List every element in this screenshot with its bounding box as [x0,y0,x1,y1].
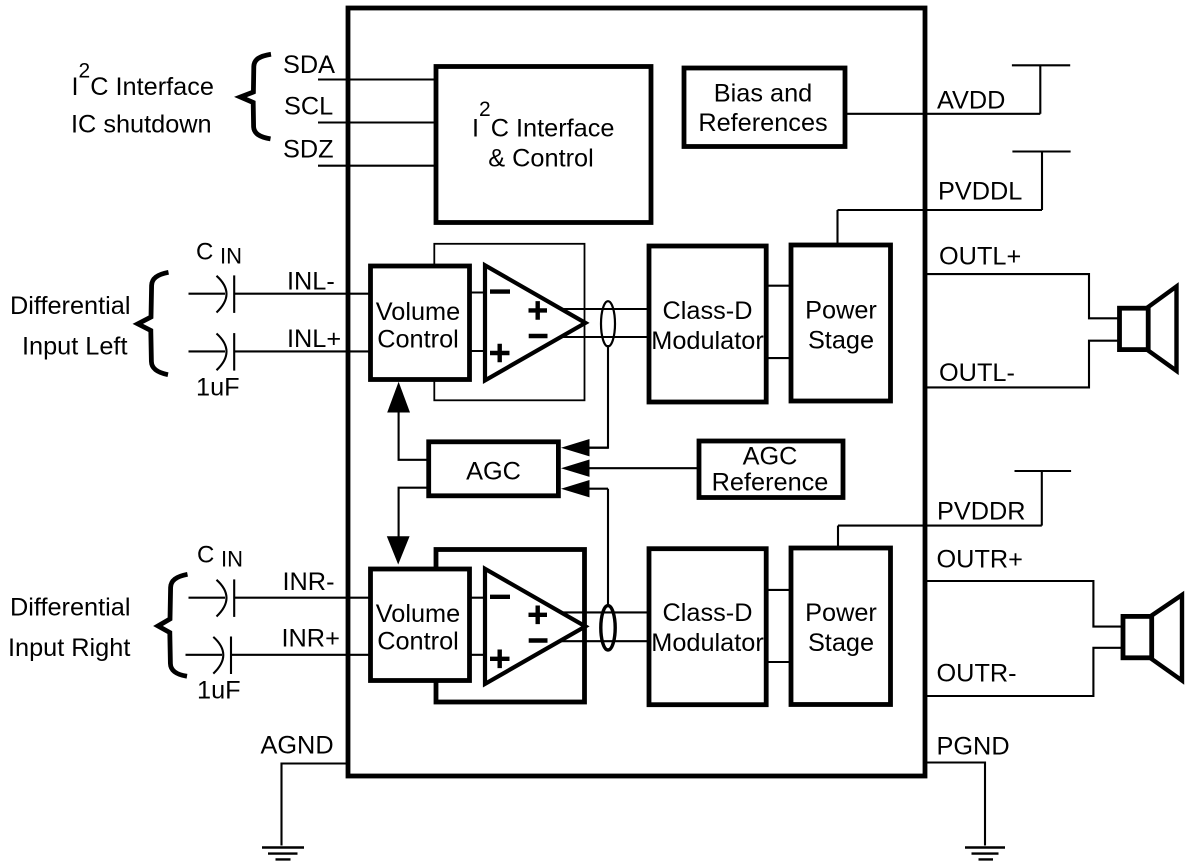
svg-text:Power: Power [805,599,877,627]
arrowhead down into Volume Control R [387,536,410,564]
feedback box around op-amp R (thick) [436,550,585,703]
svg-text:AGC: AGC [743,442,798,470]
differential pair ellipse L [601,301,615,346]
svg-text:PVDDL: PVDDL [938,178,1022,206]
ground symbol PGND [965,848,1005,860]
svg-text:Stage: Stage [808,326,874,354]
svg-text:PGND: PGND [937,732,1010,760]
op-amp U3 (right channel) [485,569,585,684]
capacitor CIN INR+ : curved plate [213,637,223,674]
brace I2C interface group [240,54,271,139]
block Bias and References [684,68,845,147]
capacitor CIN INR- : flat plate [233,579,235,617]
wire PVDDL drop to Power Stage L [836,210,838,245]
op-amp U2 minus (inverting input) [490,289,510,293]
svg-text:Input Right: Input Right [8,634,130,662]
svg-text:SDA: SDA [283,51,335,79]
op-amp U3 minus (inverting input) [490,595,510,599]
capacitor CIN INL+ : curved plate [217,334,227,371]
brace differential input left [138,272,169,374]
wire AVDD vertical riser [1039,65,1041,114]
wire OUTR+ [925,581,1123,627]
svg-text:Reference: Reference [712,468,829,496]
capacitor CIN INR+ : flat plate [230,637,232,675]
block AGC [429,442,559,496]
wire AGC sense tap left (ellipse to AGC arrow) [589,345,608,448]
op-amp U2 plus (non-inverting input) [490,344,510,363]
svg-text:& Control: & Control [488,144,593,172]
capacitor CIN INL- : left lead [189,293,226,295]
IC boundary outer rectangle [348,8,925,776]
wire PVDDR horizontal [838,525,1042,527]
svg-text:Power: Power [805,297,877,325]
svg-text:SDZ: SDZ [283,136,334,164]
wire Class-D L to Power Stage L lower [766,357,791,359]
power rail bar PVDDR [1015,470,1072,472]
svg-text:Class-D: Class-D [663,297,753,325]
svg-text:Differential: Differential [10,594,130,622]
svg-text:C: C [196,239,213,266]
svg-text:IN: IN [221,546,243,571]
svg-text:IC shutdown: IC shutdown [71,111,212,139]
wire OUTL+ [925,274,1120,318]
wire Volume Control R to op-amp inverting input [469,597,500,599]
ground symbol AGND [262,848,304,860]
block Class-D Modulator L [649,246,766,402]
block Power Stage L [791,245,891,401]
svg-text:OUTL+: OUTL+ [939,243,1021,271]
op-amp U3 plus (non-inverting input) [490,650,510,669]
svg-text:C: C [197,541,214,568]
capacitor CIN INL- : flat plate [233,275,235,313]
op-amp U2 (left channel) [485,265,585,380]
svg-text:INR-: INR- [283,568,335,596]
svg-text:INL-: INL- [287,267,335,295]
wire PVDDL horizontal [838,209,1043,211]
block U1 I2C Interface & Control [436,67,651,223]
wire SDZ [318,165,436,167]
wire Class-D L to Power Stage L upper [766,285,791,287]
block Power Stage R [791,548,891,705]
capacitor CIN INR- : curved plate [217,580,227,617]
wire op-amp R output + [545,611,649,613]
wire Volume Control L to op-amp inverting input [469,291,500,293]
speaker LS1 horn [1148,286,1176,370]
capacitor CIN INL+ : flat plate [233,333,235,371]
wire ellipse L tap into AGC arrow 1 [589,447,608,449]
wire PGND [925,763,985,846]
wire Class-D R to Power Stage R upper [766,589,791,591]
op-amp U3 minus (output polarity lower) [529,638,548,642]
capacitor CIN INL- : curved plate [217,276,227,313]
wire INL- to Volume Control [234,293,372,295]
svg-text:Control: Control [377,628,459,656]
block Volume Control L [371,266,470,380]
svg-text:OUTR+: OUTR+ [937,546,1023,574]
arrowhead into AGC (from left channel) [561,439,590,456]
op-amp U2 plus (output polarity upper) [529,301,548,320]
svg-text:Input Left: Input Left [22,332,128,360]
svg-text:SCL: SCL [284,93,333,121]
brace differential input right [158,574,188,676]
wire op-amp L output - [545,336,649,338]
wire OUTL- [925,341,1120,388]
svg-text:Control: Control [377,326,459,354]
svg-text:OUTL-: OUTL- [939,359,1015,387]
wire ellipse R tap into AGC arrow 3 [589,489,608,607]
svg-text:OUTR-: OUTR- [937,659,1017,687]
svg-text:Volume: Volume [376,298,460,326]
arrowhead into AGC (from AGC Reference) [561,460,590,477]
wire op-amp R output - [545,640,649,642]
svg-text:Differential: Differential [10,292,130,320]
svg-text:References: References [698,109,827,137]
wire AGND [282,764,349,846]
differential pair ellipse R [601,606,615,650]
svg-text:IN: IN [220,244,242,269]
wire AVDD from Bias block through boundary [845,113,1040,115]
power rail bar PVDDL [1012,150,1070,152]
svg-text:INL+: INL+ [287,325,341,353]
capacitor CIN INR+ : left lead [186,654,223,656]
speaker LS2 box [1123,616,1152,657]
svg-text:AGND: AGND [261,732,334,760]
block Class-D Modulator R [649,549,766,705]
wire SCL [318,121,436,123]
wire AGC to Volume Control L (vertical with up arrow) [399,411,428,460]
svg-text:Stage: Stage [808,629,874,657]
feedback box around op-amp L (thin) [434,244,584,400]
svg-text:Bias and: Bias and [714,79,812,107]
svg-text:INR+: INR+ [282,625,340,653]
svg-text:AVDD: AVDD [937,86,1005,114]
wire INL+ to Volume Control [234,350,372,352]
capacitor CIN INR- : left lead [189,597,226,599]
svg-text:Volume: Volume [376,600,460,628]
svg-text:1uF: 1uF [196,374,240,402]
wire SDA [318,78,436,80]
capacitor CIN INL+ : left lead [189,350,226,352]
svg-text:Class-D: Class-D [663,599,753,627]
wire INR+ to Volume Control [231,654,372,656]
arrowhead into AGC (from right channel) [561,480,590,497]
svg-text:Modulator: Modulator [651,327,764,355]
arrowhead up into Volume Control L [387,382,410,413]
op-amp U3 plus (output polarity upper) [529,606,548,625]
wire op-amp L output + [545,308,649,310]
svg-text:AGC: AGC [466,457,521,485]
wire AGC Reference to AGC [589,467,699,469]
svg-text:PVDDR: PVDDR [937,497,1026,525]
wire Class-D R to Power Stage R lower [766,661,791,663]
wire PVDDR vertical riser [1041,471,1043,526]
wire AGC to Volume Control R (vertical with down arrow) [399,488,428,538]
block Volume Control R [371,569,470,681]
speaker LS1 box [1120,308,1149,349]
wire Volume Control L to op-amp non-inverting input [469,350,500,352]
block AGC Reference [699,441,843,498]
speaker LS2 horn [1152,595,1182,681]
wire INR- to Volume Control [234,597,372,599]
svg-text:1uF: 1uF [197,677,241,705]
wire PVDDR drop to Power Stage R [837,526,839,548]
wire Volume Control R to op-amp non-inverting input [469,654,500,656]
power rail bar AVDD [1012,64,1070,66]
svg-text:Modulator: Modulator [651,629,764,657]
wire PVDDL vertical riser [1041,152,1043,211]
op-amp U2 minus (output polarity lower) [529,334,548,338]
svg-text:I2C Interface: I2C Interface [72,59,214,101]
wire OUTR- [925,648,1123,696]
